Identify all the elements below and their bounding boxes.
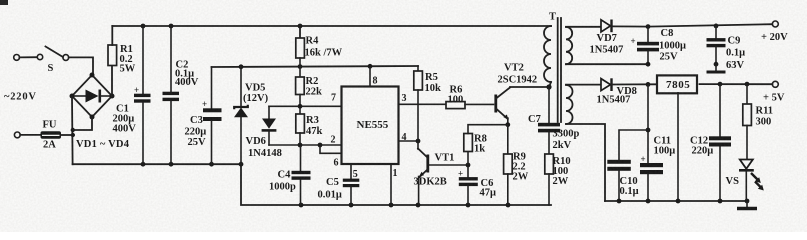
capacitor C4 1000p (269, 145, 311, 205)
op-amp U1 NE555 timer (342, 87, 399, 165)
regulator 7805 (657, 75, 697, 201)
capacitor C7 3300p 2kV (528, 84, 580, 154)
fuse FU 2A (14, 120, 73, 151)
capacitor C1 200u 400V (113, 26, 151, 164)
resistor R4 16k/7W (296, 26, 343, 67)
switch S (14, 47, 69, 75)
capacitor C5 0.01u on pin 5 (318, 164, 360, 205)
diode VD7 1N5407 (566, 20, 648, 56)
resistor R5 10k (414, 66, 441, 141)
capacitor C12 220u (690, 84, 731, 201)
capacitor C9 0.1u 63V (707, 26, 746, 71)
resistor R2 22k (296, 67, 322, 106)
capacitor C11 100u (640, 84, 675, 201)
node pin2: wire to NE555 pin 2 (269, 135, 342, 148)
label ~220V (4, 92, 37, 103)
wire switch to bridge (69, 57, 93, 75)
transformer core (558, 18, 561, 122)
wire pin 3 output (399, 93, 447, 104)
transistor VT1 3DK2B (414, 141, 469, 205)
diode VD6 1N4148 (246, 106, 282, 159)
wire bridge right vertex up to R1 (111, 66, 113, 97)
left bottom rail (73, 162, 551, 208)
secondary ground rail (605, 199, 749, 204)
resistor R9 2.2 2W (504, 122, 529, 205)
ground symbol (737, 201, 757, 209)
transistor VT2 2SC1942 (496, 63, 549, 125)
capacitor C2 0.1u 400V (163, 26, 199, 164)
diode VD8 1N5407 (566, 78, 657, 105)
resistor R8 1k (464, 125, 508, 168)
+5V output wire (700, 81, 785, 103)
capacitor C6 47u (458, 165, 496, 205)
resistor R3 47k (296, 106, 323, 145)
transformer secondary 2 (566, 85, 605, 201)
wire pin 6 jog (320, 145, 342, 169)
wire bridge left vertex down to left rail, fuse junction (71, 96, 75, 164)
wire pin 4 reset (399, 132, 421, 143)
ground 20V section (646, 62, 726, 72)
node pin7: wire to NE555 pin 7 (269, 93, 342, 109)
resistor R10 100 2W (545, 154, 571, 205)
wire pin 8 (370, 66, 378, 86)
wire pin 1 to ground rail (391, 164, 398, 205)
LED VS (726, 126, 764, 202)
capacitor C8 1000u 25V (631, 27, 687, 65)
12V supply wire (212, 64, 419, 69)
capacitor C3 220u 25V (185, 67, 222, 164)
resistor R11 300 (743, 84, 773, 127)
wire bridge bottom vertex jog (73, 117, 92, 130)
zener VD5 (12V) (234, 67, 269, 164)
capacitor C10 0.1u (607, 128, 650, 201)
transformer secondary 1 (566, 27, 648, 64)
transformer T primary winding (544, 12, 556, 88)
resistor R6 100 (446, 85, 494, 109)
resistor R1 0.2 5W (108, 26, 136, 75)
+20V output wire (646, 21, 789, 43)
top +300V rail (112, 24, 551, 29)
bridge rectifier VD1~VD4 (70, 73, 130, 151)
